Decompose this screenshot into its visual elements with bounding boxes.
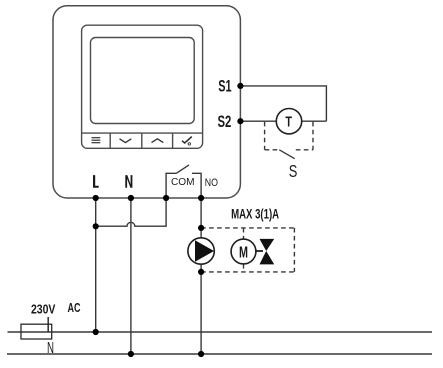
svg-text:NO: NO bbox=[205, 177, 218, 189]
svg-text:COM: COM bbox=[171, 177, 195, 188]
svg-text:M: M bbox=[239, 244, 248, 261]
svg-text:N: N bbox=[47, 340, 54, 357]
svg-text:S1: S1 bbox=[218, 77, 231, 96]
svg-text:MAX 3(1)A: MAX 3(1)A bbox=[231, 206, 279, 221]
svg-text:230V: 230V bbox=[31, 302, 56, 317]
svg-text:T: T bbox=[285, 114, 292, 131]
svg-text:S: S bbox=[289, 161, 298, 181]
svg-text:S2: S2 bbox=[218, 112, 232, 131]
svg-text:AC: AC bbox=[68, 300, 81, 315]
